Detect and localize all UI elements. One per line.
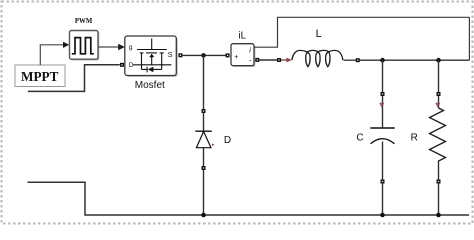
- mosfet D rail: [133, 64, 172, 66]
- junction node C top: [380, 58, 385, 63]
- svg-text:g: g: [129, 44, 133, 51]
- wire bottom rail with left stub: [28, 182, 470, 215]
- current sensor iL block: [231, 44, 255, 67]
- port resistor bottom: [437, 180, 441, 184]
- mosfet U1 block: [125, 36, 178, 77]
- svg-text:S: S: [168, 50, 173, 59]
- wire PWM output to Mosfet gate: [98, 44, 125, 50]
- flow arrow into R: [435, 103, 440, 108]
- svg-text:PWM: PWM: [75, 18, 93, 25]
- wire node to capacitor: [382, 60, 384, 215]
- svg-text:R: R: [411, 133, 418, 144]
- wire Mosfet S to iL block: [182, 54, 227, 56]
- port diode bottom: [202, 166, 206, 170]
- junction node at S: [201, 53, 206, 58]
- junction capacitor bottom: [380, 213, 385, 218]
- svg-text:iL: iL: [238, 31, 246, 42]
- wire right edge down: [468, 17, 470, 60]
- svg-text:Mosfet: Mosfet: [135, 80, 165, 91]
- junction node R top: [436, 58, 441, 63]
- svg-text:C: C: [356, 133, 363, 144]
- pulse generator PWM: [70, 31, 100, 61]
- capacitor C plates: [370, 128, 394, 144]
- junction diode bottom: [201, 213, 206, 218]
- inductor L coil: [292, 50, 343, 66]
- port capacitor bottom: [381, 180, 385, 184]
- svg-text:D: D: [224, 135, 231, 146]
- diode D1 symbol: [195, 131, 214, 148]
- port D of Mosfet: [120, 63, 124, 67]
- flow arrow into C: [379, 103, 384, 108]
- flow arrow into L: [281, 58, 292, 63]
- port inductor left: [277, 58, 281, 62]
- wire inductor to output node: [360, 59, 470, 61]
- wire MPPT output to PWM input: [40, 42, 69, 65]
- wire coil to right port: [344, 59, 357, 61]
- port resistor top: [437, 92, 441, 96]
- wire iL signal output to top rail: [254, 17, 469, 47]
- port diode top: [202, 109, 206, 113]
- port capacitor top: [381, 92, 385, 96]
- port S of Mosfet: [178, 53, 182, 57]
- wire node down to diode: [203, 55, 205, 215]
- port iL output: [255, 58, 259, 62]
- port iL input: [226, 53, 230, 57]
- junction resistor bottom: [436, 213, 441, 218]
- block MPPT: [15, 65, 65, 87]
- svg-text:L: L: [316, 28, 322, 40]
- svg-text:MPPT: MPPT: [21, 69, 59, 84]
- port inductor right: [356, 58, 360, 62]
- resistor R zigzag: [430, 108, 446, 163]
- wire to Mosfet drain D: [28, 65, 120, 92]
- mosfet symbol: [137, 39, 167, 73]
- svg-text:+: +: [234, 54, 238, 61]
- wire iL to inductor: [259, 59, 277, 61]
- wire node to resistor: [438, 60, 440, 215]
